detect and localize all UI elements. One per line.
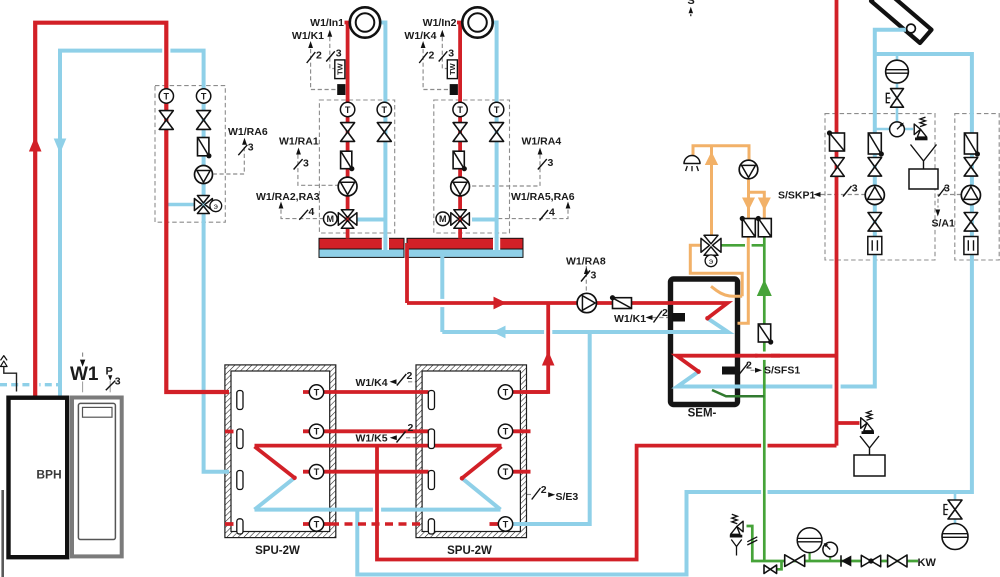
wire blue mixing valve 1 to riser	[356, 218, 385, 222]
boiler control cabinet	[72, 398, 122, 557]
flow arrow orange down pair left	[742, 198, 755, 211]
svg-text:T: T	[503, 387, 509, 397]
thermometer T circuit1 return	[377, 102, 391, 116]
wire red stratifier diagonal tank2	[462, 447, 502, 479]
svg-text:T: T	[314, 519, 320, 529]
svg-text:W1/RA6: W1/RA6	[228, 126, 268, 138]
svg-text:3: 3	[448, 48, 454, 60]
safety valve group KW	[737, 521, 743, 532]
expansion vessel bottom right	[942, 524, 968, 550]
svg-text:3: 3	[303, 158, 309, 170]
thermometers tank2	[498, 385, 512, 399]
svg-text:W1/RA2,RA3: W1/RA2,RA3	[256, 191, 320, 203]
svg-text:W1/K1: W1/K1	[614, 313, 646, 325]
flow arrow orange down pair right	[758, 198, 771, 211]
pump left group	[195, 166, 213, 184]
blue dashed make-up line at boiler	[0, 383, 60, 386]
flow arrow red right main supply	[494, 297, 507, 310]
wire red boiler supply: BPH up, across, down to tank1	[162, 45, 170, 56]
svg-text:SEM-: SEM-	[688, 408, 717, 420]
3-way mixing valve left group	[194, 196, 212, 214]
wire green DHW cold feed main vertical	[761, 441, 767, 451]
check valve circuit1	[341, 151, 352, 169]
wire blue collector loop right side and bottom run	[357, 54, 972, 575]
thin stem P to boiler	[109, 381, 111, 392]
tank2 stratifier slots	[428, 391, 434, 410]
TW limiter circuit 1	[335, 60, 345, 79]
shutoff valve KW right	[888, 555, 907, 567]
pipe break marks	[747, 537, 757, 545]
svg-text:3: 3	[548, 157, 554, 169]
svg-text:2: 2	[541, 484, 547, 496]
valve solar blue 1b	[868, 213, 882, 232]
dashed lead S/SFS1	[736, 369, 755, 371]
svg-text:T: T	[503, 427, 509, 437]
wire red tank sensor line row 2 W1/K5	[303, 429, 429, 433]
svg-text:M: M	[327, 214, 335, 224]
svg-text:T: T	[382, 105, 388, 115]
wire red riser heating circuit 1	[345, 23, 353, 239]
pressure gauge KW	[829, 556, 831, 561]
svg-text:S/A1: S/A1	[932, 218, 956, 230]
vent connection line	[4, 367, 17, 392]
wire red solar feed to SEM coil 2	[677, 356, 837, 372]
wire red solar line from collector area down right side	[832, 381, 840, 392]
3-way valve DHW	[701, 235, 721, 255]
solar collector panel	[871, 0, 932, 43]
wire orange circulation riser to 3-way valve	[710, 146, 713, 236]
wire red tank sensor line row 1 W1/K4	[303, 390, 429, 394]
valve solar red	[831, 158, 845, 177]
svg-text:2: 2	[408, 422, 414, 434]
dashed lead W1/RA1 to pump	[298, 155, 338, 186]
motor M circuit1	[324, 212, 338, 226]
check valve green line	[758, 324, 770, 342]
svg-text:W1/RA8: W1/RA8	[566, 256, 606, 268]
dashed stem W1 arrow	[82, 353, 84, 360]
svg-text:W1/RA4: W1/RA4	[522, 136, 562, 148]
svg-text:W1/K4: W1/K4	[404, 30, 436, 42]
safety valve solar	[914, 124, 920, 135]
actuator left group	[210, 200, 222, 212]
check valve circuit2	[453, 151, 464, 169]
check valve KW	[840, 555, 842, 566]
air vent symbol left of boiler	[1, 356, 8, 367]
svg-text:3: 3	[591, 270, 597, 282]
wire blue stratifier diagonal tank2	[462, 478, 501, 509]
red over green crossing patch	[758, 352, 772, 360]
check valve DHW right	[758, 219, 771, 237]
sensor pocket SEM bottom	[722, 367, 735, 375]
wire blue SEM solar coil out to right column	[678, 30, 907, 387]
wire blue main return from SEM coil to manifold	[442, 318, 728, 332]
wire red manifold supply drop	[405, 243, 409, 303]
flow arrow blue down boiler return	[54, 139, 67, 154]
dashed lead W1/In1 to TW limiter	[330, 37, 335, 69]
svg-text:2: 2	[662, 307, 668, 319]
svg-text:W1/K5: W1/K5	[356, 433, 388, 445]
valve circuit2 supply	[453, 123, 467, 142]
manifold return bar left	[319, 249, 404, 257]
thermometer T circuit2 supply	[453, 102, 467, 116]
wire blue mixing valve 2 to riser	[472, 218, 497, 222]
svg-text:э: э	[709, 256, 713, 266]
3-way mixing valve circuit1	[338, 210, 357, 229]
buffer tank SPU-2W no.1 hatched wall	[225, 365, 336, 538]
sensor pocket SEM top	[672, 313, 685, 322]
wire orange curve into SEM coil	[711, 286, 742, 296]
expansion vessel KW	[808, 552, 810, 561]
wire blue gauge / safety valve line	[875, 128, 913, 131]
dashed lead W1/RA2,RA3 to mixing valve	[281, 210, 325, 219]
fill/drain valve bottom right	[948, 500, 962, 519]
3-way mixing valve circuit2	[451, 210, 470, 229]
actuator DHW	[705, 255, 717, 267]
wire red tank2 top port riser to main supply	[544, 327, 552, 337]
svg-text:W1/In2: W1/In2	[423, 17, 457, 29]
svg-text:2: 2	[407, 370, 413, 382]
dashed group box solar pump group 1	[825, 114, 935, 260]
TW limiter circuit 2	[447, 60, 457, 79]
flow arrow blue left main return	[493, 326, 506, 339]
pump solar 1	[865, 185, 884, 204]
valve solar blue 2a	[964, 158, 978, 177]
drain funnel Y below safety	[731, 540, 741, 556]
wire red tank sensor line row 3	[303, 470, 429, 474]
svg-text:W1/K1: W1/K1	[292, 30, 324, 42]
valve solar blue 2b	[964, 213, 978, 232]
wire blue boiler return: BPH up, across, down to tank1	[60, 51, 229, 472]
check valve solar blue 1	[868, 133, 881, 154]
wire blue riser heating circuit 1 over manifold	[382, 238, 389, 250]
svg-text:T: T	[494, 105, 500, 115]
wire red charging loop bottom U	[373, 504, 381, 515]
expansion vessel solar	[909, 169, 938, 189]
wire orange 3-way valve to SEM coil top	[690, 245, 742, 296]
wire orange check valve down to SEM port	[738, 237, 749, 323]
wire green SEM bottom connection	[712, 390, 764, 396]
svg-text:S/E3: S/E3	[556, 491, 579, 503]
svg-text:3: 3	[852, 183, 858, 195]
thermometer T circuit2 return	[489, 102, 503, 116]
dashed lead W1/K1 to sensor	[311, 49, 337, 90]
wire orange circulation pump drop with branch	[745, 241, 752, 250]
pump main charging W1/RA8	[577, 293, 596, 312]
svg-text:W1/K4: W1/K4	[356, 377, 388, 389]
wire red riser heating circuit 2	[457, 23, 465, 239]
safety valve charging loop	[861, 418, 867, 429]
svg-text:4: 4	[549, 207, 555, 219]
flow arrow orange up circulation	[705, 152, 718, 166]
wire blue manifold return drop	[440, 250, 444, 332]
thermometer T left group red	[159, 89, 173, 103]
dashed group box heating circuit 2	[434, 100, 510, 233]
wire blue tank2 bottom port to return riser	[512, 332, 590, 524]
collector connection circle	[907, 24, 916, 33]
ball valve KW	[861, 555, 880, 566]
wire blue stratifier through-line	[255, 508, 501, 512]
svg-text:TW: TW	[448, 62, 457, 75]
boiler BPH body	[9, 398, 68, 558]
flow arrow red up boiler supply	[29, 137, 42, 152]
thermometers tank1	[309, 385, 323, 399]
motor M circuit2	[436, 212, 450, 226]
svg-text:T: T	[314, 467, 320, 477]
dashed lead S/E3	[527, 494, 532, 496]
drain valve small KW	[764, 565, 777, 573]
wire blue bypass stub left group	[168, 203, 195, 206]
shower head symbol	[684, 156, 700, 164]
wire blue stub to fill valve bottom right	[954, 492, 957, 501]
fresh water module SEM body	[671, 279, 738, 405]
svg-text:S: S	[687, 0, 694, 7]
manifold supply bar left	[319, 238, 404, 249]
svg-text:T: T	[503, 467, 509, 477]
dashed lead W1/K1 to SEM sensor pocket	[653, 317, 673, 319]
flow meter solar 2	[964, 237, 978, 255]
thin stem W1 to boiler	[82, 382, 84, 393]
pump circuit1	[338, 177, 357, 196]
shutoff valve KW main	[785, 555, 805, 567]
svg-text:T: T	[314, 427, 320, 437]
pump solar 2	[961, 185, 980, 204]
svg-text:T: T	[457, 105, 463, 115]
svg-text:SPU-2W: SPU-2W	[255, 545, 300, 557]
wire green cold water KW line	[747, 526, 919, 569]
flow meter solar 1	[868, 237, 882, 255]
svg-text:T: T	[314, 387, 320, 397]
check valve W1/K1 main	[613, 298, 632, 309]
wire blue separator to gauge stub	[896, 83, 899, 124]
dashed lead W1/K4 to tank slot	[408, 382, 430, 390]
dashed group box heating circuit 1	[319, 100, 394, 233]
pump circuit2	[451, 177, 470, 196]
dashed lead S/SKP1 to solar pump	[821, 194, 866, 196]
wire red tank2 row1 stub to riser	[512, 390, 548, 394]
wire red tank1 left wall port stubs	[225, 432, 234, 525]
air separator solar	[886, 60, 909, 83]
wire red stratifier diagonal tank1	[255, 447, 295, 478]
flow arrow red up tank riser	[542, 351, 555, 366]
fill/drain valve below separator	[891, 89, 904, 108]
flow arrow green up	[757, 280, 772, 297]
wire red dashed interconnection tanks bottom	[331, 522, 421, 525]
check valve DHW left	[742, 219, 755, 237]
wire blue stratifier diagonal tank1	[255, 478, 295, 510]
svg-text:SPU-2W: SPU-2W	[447, 545, 492, 557]
dashed lead W1/K4 to sensor	[423, 49, 449, 90]
svg-text:W1/In1: W1/In1	[310, 17, 344, 29]
check valve left group	[198, 138, 209, 156]
wire red stub to safety valve right	[837, 421, 860, 425]
svg-text:3: 3	[115, 376, 121, 388]
svg-text:W1/RA1: W1/RA1	[279, 136, 319, 148]
dashed lead W1/K5 to tank slot	[406, 437, 430, 439]
dashed lead W1/RA5,RA6 to mixing valve	[472, 210, 568, 219]
svg-text:M: M	[439, 214, 447, 224]
svg-text:T: T	[164, 91, 170, 101]
wire red tank2 row4 left stub	[490, 522, 501, 526]
wire blue stub fill valve to vessel	[954, 518, 957, 524]
tank1 stratifier slots	[237, 391, 243, 410]
sensor W1/K4 black square	[450, 84, 458, 95]
svg-text:2: 2	[316, 50, 322, 62]
svg-text:3: 3	[248, 142, 254, 154]
dashed lead W1/In2 to TW limiter	[442, 37, 447, 69]
svg-text:BPH: BPH	[36, 468, 61, 482]
valve left group blue	[197, 111, 211, 130]
wire red main supply to SEM coil 1	[437, 299, 447, 307]
wire red stratifier through-line	[255, 444, 502, 448]
wire red tank2 right stubs rows 2 3	[512, 431, 531, 471]
check valve solar blue 2	[964, 133, 977, 154]
valve circuit1 supply	[341, 123, 355, 142]
dashed lead W1/RA6 to pump	[214, 147, 245, 174]
svg-text:3: 3	[336, 48, 342, 60]
expansion vessel charging loop	[854, 455, 885, 476]
wire orange DHW distribution top	[693, 146, 749, 161]
valve solar blue 1a	[868, 158, 882, 177]
wire red tank sensor line row 4 left part	[303, 522, 331, 526]
svg-text:TW: TW	[335, 62, 344, 75]
svg-text:W1: W1	[70, 364, 99, 385]
svg-text:2: 2	[429, 50, 435, 62]
heater symbol W1/In1	[350, 7, 380, 37]
sensor W1/K1 black square	[337, 84, 345, 95]
dashed lead W1/RA4 to pump	[470, 155, 540, 187]
svg-text:S/SKP1: S/SKP1	[778, 190, 816, 202]
svg-text:T: T	[201, 91, 207, 101]
wire blue riser heating circuit 2 over manifold	[493, 238, 500, 250]
heater symbol W1/In2	[462, 7, 492, 37]
thermometer T circuit1 supply	[340, 102, 354, 116]
dashed lead W1/RA8 to pump	[585, 266, 587, 293]
dashed lead S/A1 from solar pump 2	[938, 195, 961, 208]
svg-text:W1/RA5,RA6: W1/RA5,RA6	[511, 191, 575, 203]
dashed group box solar pump group 2	[955, 114, 999, 260]
check valve solar red	[830, 133, 845, 151]
svg-text:T: T	[503, 519, 509, 529]
svg-text:4: 4	[309, 206, 315, 218]
wire blue separator stub top	[896, 54, 899, 61]
pressure gauge solar	[890, 122, 905, 137]
thermometer T left group blue	[196, 89, 210, 103]
pump DHW circulation	[739, 160, 758, 179]
dashed group box left circulation group	[155, 86, 225, 223]
manifold supply bar right	[407, 238, 523, 249]
svg-text:KW: KW	[918, 557, 937, 569]
valve circuit1 return	[377, 123, 391, 142]
svg-text:э: э	[214, 201, 218, 211]
svg-text:S/SFS1: S/SFS1	[764, 365, 800, 377]
valve left group red	[159, 111, 173, 130]
manifold return bar right	[407, 249, 523, 257]
valve circuit2 return	[490, 123, 504, 142]
edge line bottom left	[1, 490, 4, 577]
buffer tank SPU-2W no.2 hatched wall	[416, 365, 527, 538]
svg-text:T: T	[345, 105, 351, 115]
